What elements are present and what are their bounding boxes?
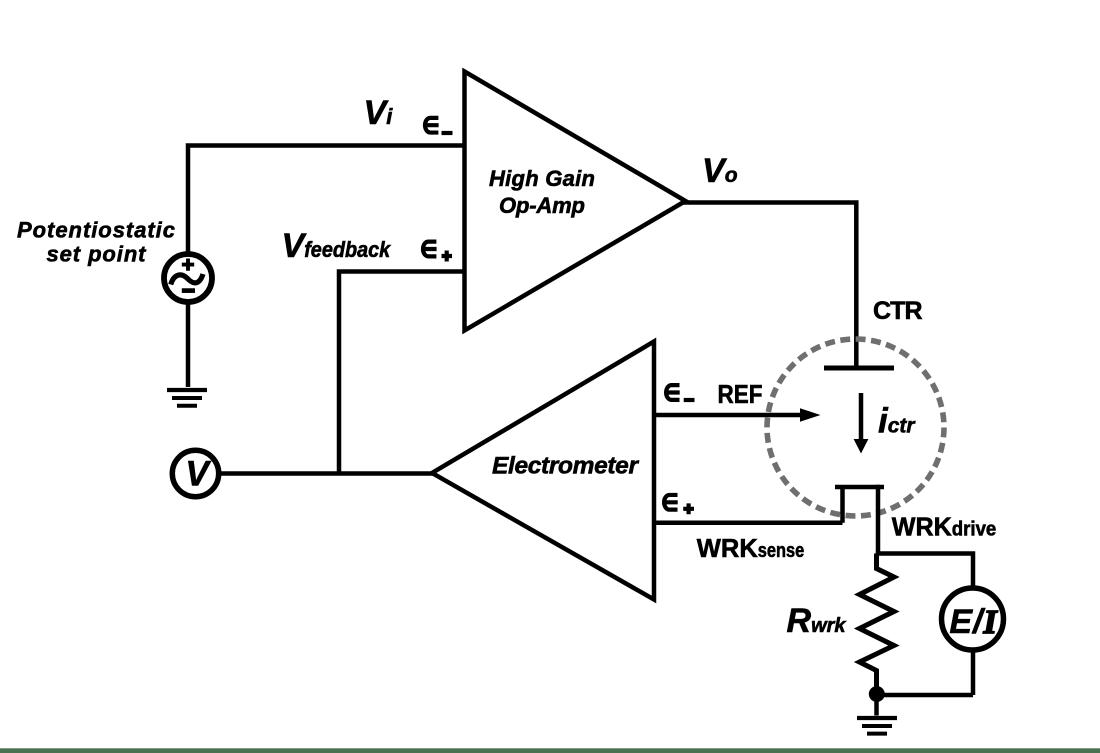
svg-text:Op-Amp: Op-Amp bbox=[499, 193, 585, 218]
svg-text:REF: REF bbox=[718, 379, 763, 409]
svg-text:High Gain: High Gain bbox=[489, 166, 595, 191]
svg-text:CTR: CTR bbox=[873, 297, 923, 325]
svg-text:Electrometer: Electrometer bbox=[492, 453, 639, 480]
svg-text:set point: set point bbox=[47, 242, 148, 267]
svg-text:Potentiostatic: Potentiostatic bbox=[17, 218, 175, 243]
svg-text:V: V bbox=[185, 455, 211, 494]
svg-text:E/I: E/I bbox=[949, 603, 998, 641]
